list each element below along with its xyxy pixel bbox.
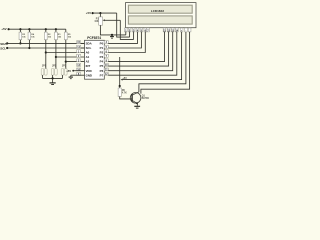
svg-text:P7: P7	[100, 73, 104, 77]
svg-text:10k: 10k	[48, 37, 52, 39]
svg-text:+5V: +5V	[1, 27, 6, 31]
svg-text:10k: 10k	[31, 37, 35, 39]
svg-text:A0: A0	[86, 51, 90, 55]
svg-text:P4: P4	[100, 60, 104, 64]
svg-text:P1: P1	[100, 46, 104, 50]
svg-text:+5V: +5V	[66, 69, 71, 73]
svg-text:P3: P3	[100, 55, 104, 59]
svg-text:+5V: +5V	[86, 11, 91, 15]
svg-text:10K: 10K	[94, 21, 99, 23]
svg-text:P5: P5	[100, 64, 104, 68]
svg-text:P6: P6	[100, 69, 104, 73]
svg-text:4.7K: 4.7K	[122, 92, 127, 95]
svg-text:PCF8574: PCF8574	[87, 36, 101, 40]
svg-text:SCL: SCL	[86, 46, 92, 50]
svg-text:P2: P2	[100, 51, 104, 55]
svg-text:SDA: SDA	[86, 42, 93, 46]
svg-text:10k: 10k	[68, 37, 72, 39]
svg-text:A2: A2	[86, 60, 90, 64]
svg-text:LCD16X2: LCD16X2	[151, 9, 165, 13]
svg-text:+5V: +5V	[123, 78, 128, 80]
svg-text:INT: INT	[86, 64, 91, 68]
svg-text:A1: A1	[86, 55, 90, 59]
svg-text:VDD: VDD	[86, 69, 92, 73]
svg-text:10k: 10k	[58, 37, 62, 39]
svg-text:10k: 10k	[22, 37, 26, 39]
svg-text:BC550: BC550	[142, 98, 150, 100]
svg-text:P0: P0	[100, 42, 104, 46]
svg-text:SCL: SCL	[0, 46, 6, 50]
svg-text:GND: GND	[86, 73, 92, 77]
